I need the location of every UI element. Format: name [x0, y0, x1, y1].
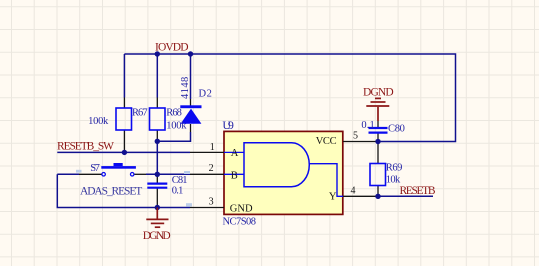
svg-text:R69: R69	[386, 163, 403, 174]
svg-text:GND: GND	[230, 203, 253, 214]
svg-text:3: 3	[209, 197, 214, 208]
svg-text:R67: R67	[132, 108, 148, 119]
svg-text:R68: R68	[166, 108, 182, 119]
svg-text:NC7S08: NC7S08	[223, 217, 257, 228]
svg-text:B: B	[231, 170, 238, 181]
svg-text:4148: 4148	[180, 77, 191, 99]
svg-text:2: 2	[209, 163, 214, 174]
svg-text:0.1: 0.1	[172, 186, 184, 197]
svg-text:A: A	[231, 148, 239, 159]
svg-text:S7: S7	[90, 163, 100, 174]
svg-text:IOVDD: IOVDD	[155, 42, 189, 54]
svg-text:DGND: DGND	[363, 86, 394, 98]
svg-text:U9: U9	[222, 118, 234, 132]
svg-text:RESETB_SW: RESETB_SW	[57, 141, 114, 153]
svg-text:Y: Y	[329, 191, 337, 202]
svg-text:100k: 100k	[88, 116, 109, 127]
svg-text:4: 4	[351, 186, 356, 197]
svg-text:DGND: DGND	[143, 230, 171, 242]
svg-text:C80: C80	[388, 124, 405, 135]
svg-text:5: 5	[353, 130, 358, 141]
svg-text:RESETB: RESETB	[400, 185, 436, 197]
svg-text:ADAS_RESET: ADAS_RESET	[80, 186, 142, 198]
svg-text:D2: D2	[199, 88, 212, 99]
svg-text:1: 1	[210, 142, 215, 153]
svg-text:VCC: VCC	[316, 136, 337, 147]
svg-text:0.1: 0.1	[361, 120, 374, 131]
svg-text:100k: 100k	[166, 121, 187, 132]
svg-text:10k: 10k	[386, 175, 401, 186]
